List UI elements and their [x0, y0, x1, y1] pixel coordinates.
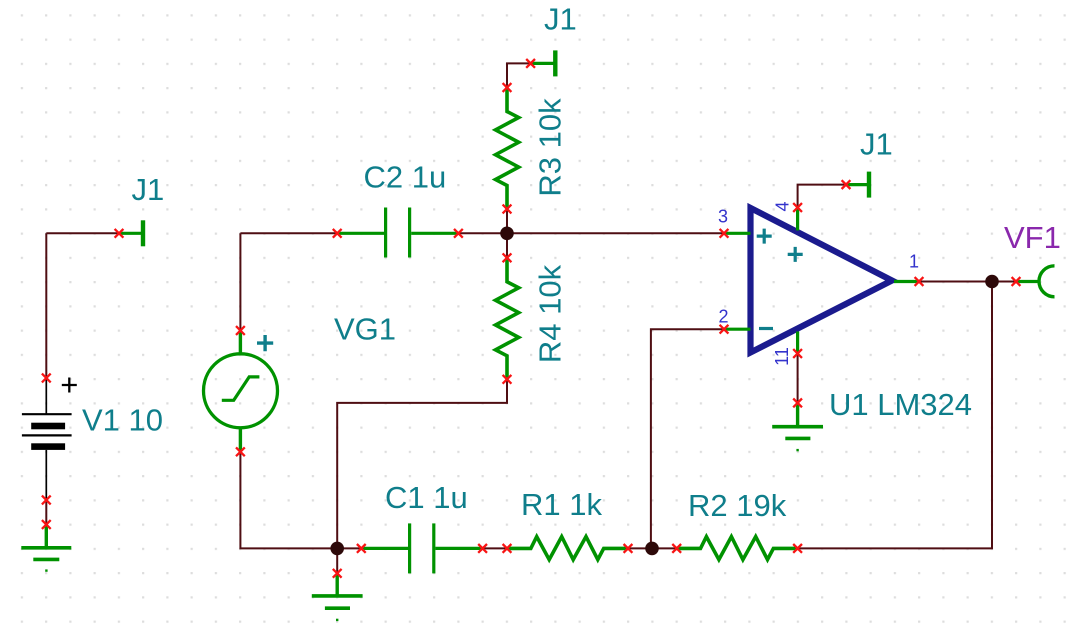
- svg-text:4: 4: [773, 201, 793, 211]
- capacitor C1: [361, 523, 482, 573]
- probe VF1: [1016, 266, 1055, 297]
- ground (below U1): [772, 403, 823, 450]
- wire: [628, 547, 677, 549]
- connection crosses: [42, 59, 1021, 578]
- polarity + of VG1: [257, 335, 273, 351]
- wire: [336, 548, 338, 573]
- battery V1: [22, 378, 77, 501]
- pin 1 stub: [894, 280, 919, 283]
- wire: [797, 354, 799, 403]
- ground (below V1): [21, 525, 71, 571]
- jumper J1 right: [846, 172, 869, 198]
- wire: [483, 547, 507, 549]
- svg-text:R3 10k: R3 10k: [533, 98, 568, 197]
- node (output/feedback): [985, 275, 999, 289]
- pin 11 stub: [796, 332, 799, 354]
- svg-text:R2 19k: R2 19k: [688, 488, 787, 523]
- wire: [798, 282, 992, 549]
- wire: [651, 329, 724, 548]
- op-amp - input mark: [759, 327, 773, 330]
- svg-text:U1 LM324: U1 LM324: [829, 387, 972, 422]
- svg-text:V1 10: V1 10: [82, 403, 163, 438]
- wire: [458, 232, 724, 234]
- node (C1/VG1 ground): [330, 542, 344, 556]
- wire: [919, 281, 1016, 283]
- svg-text:3: 3: [718, 207, 728, 227]
- svg-text:C1 1u: C1 1u: [385, 480, 468, 515]
- node (C2/R3/R4): [500, 227, 514, 241]
- svg-text:1: 1: [909, 252, 919, 272]
- wire: [798, 185, 846, 208]
- wire: [45, 233, 47, 378]
- resistor R1: [507, 537, 628, 560]
- capacitor C2: [337, 208, 458, 258]
- svg-text:VG1: VG1: [334, 312, 396, 347]
- ground (below C1 node): [312, 573, 363, 620]
- wire: [337, 547, 361, 549]
- wire: [337, 379, 507, 548]
- wire: [240, 232, 337, 234]
- wire: [506, 209, 508, 258]
- svg-text:J1: J1: [860, 127, 893, 162]
- svg-text:J1: J1: [544, 2, 577, 37]
- resistor R4: [496, 258, 519, 380]
- wire: [45, 500, 47, 525]
- wire: [507, 63, 531, 87]
- svg-text:11: 11: [772, 347, 792, 366]
- resistor R3: [496, 88, 519, 210]
- op-amp U1: [751, 208, 893, 353]
- resistor R2: [677, 537, 798, 560]
- op-amp + input mark: [757, 229, 772, 244]
- pin 4 stub: [796, 208, 799, 231]
- svg-text:R4 10k: R4 10k: [533, 264, 568, 363]
- svg-text:R1 1k: R1 1k: [521, 487, 602, 522]
- pin 2 stub: [724, 328, 751, 331]
- svg-text:J1: J1: [132, 172, 165, 207]
- wire: [240, 452, 337, 549]
- jumper J1 left: [119, 220, 143, 246]
- node (R1/R2/pin2): [645, 542, 659, 556]
- svg-text:VF1: VF1: [1004, 220, 1061, 255]
- svg-text:2: 2: [718, 307, 728, 327]
- pin 3 stub: [724, 232, 751, 235]
- wire: [239, 233, 241, 330]
- generator VG1: [204, 331, 278, 452]
- op-amp + center mark: [788, 247, 803, 262]
- svg-text:C2 1u: C2 1u: [364, 160, 447, 195]
- wire: [46, 232, 119, 234]
- jumper J1 top: [531, 50, 556, 76]
